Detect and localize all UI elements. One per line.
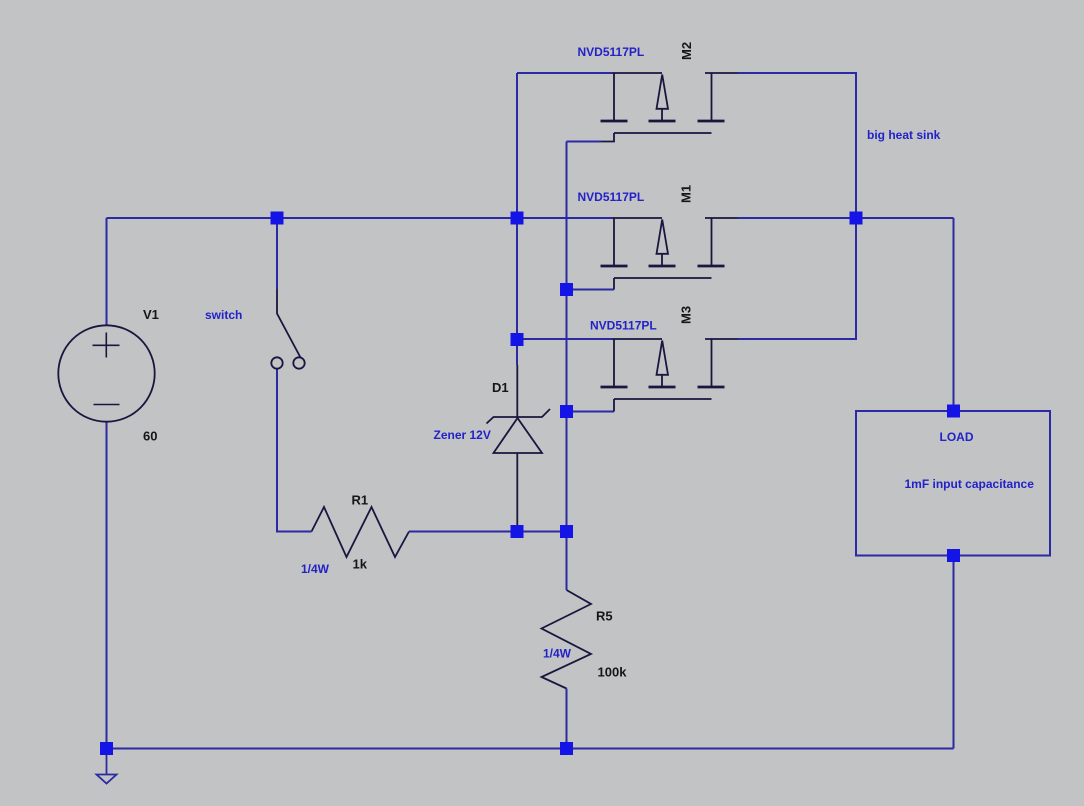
wire switch top lead xyxy=(276,218,278,289)
junction node M3 drain xyxy=(511,333,524,346)
wire zener bottom lead xyxy=(516,453,518,532)
transistor M3 xyxy=(601,339,739,412)
wire vertical x=517 from M2 drain to zener xyxy=(516,73,518,365)
svg-text:switch: switch xyxy=(205,308,242,322)
wire right drop to LOAD xyxy=(953,218,955,411)
junction node ground rail xyxy=(100,742,113,755)
svg-text:LOAD: LOAD xyxy=(940,430,974,444)
junction node R5 bottom xyxy=(560,742,573,755)
wire LOAD bottom to rail xyxy=(953,556,955,749)
wire V1 top lead xyxy=(106,218,108,325)
junction node rail-heat sink xyxy=(850,212,863,225)
voltage source V1 xyxy=(58,325,154,421)
svg-text:M1: M1 xyxy=(679,185,694,203)
junction node M1 gate xyxy=(560,283,573,296)
svg-text:Zener 12V: Zener 12V xyxy=(434,428,491,442)
wire M1 gate lead blue part xyxy=(567,289,615,291)
wire top rail y=218 left portion xyxy=(107,217,613,219)
svg-text:NVD5117PL: NVD5117PL xyxy=(590,319,657,333)
wire R1 right lead to node xyxy=(409,531,567,533)
wire zener top lead dark xyxy=(516,365,518,417)
svg-text:big heat sink: big heat sink xyxy=(867,128,941,142)
wire bottom rail y=748.5 xyxy=(107,748,954,750)
wire M3 drain horizontal xyxy=(517,338,612,340)
wire M2 source to heat sink rail xyxy=(738,73,856,218)
resistor R5 xyxy=(542,590,592,689)
svg-text:1/4W: 1/4W xyxy=(543,647,572,661)
svg-text:1k: 1k xyxy=(353,557,368,572)
junction node rail-switch xyxy=(271,212,284,225)
wire R5 bottom lead xyxy=(566,689,568,749)
svg-text:60: 60 xyxy=(143,429,157,444)
junction node zener bottom xyxy=(511,525,524,538)
svg-text:D1: D1 xyxy=(492,380,509,395)
svg-text:V1: V1 xyxy=(143,307,159,322)
svg-text:R5: R5 xyxy=(596,609,613,624)
wire V1 bottom lead xyxy=(106,422,108,749)
svg-text:R1: R1 xyxy=(352,493,369,508)
wire M2 gate lead blue part xyxy=(567,141,602,143)
wire vertical x=566.5 gates bus xyxy=(566,142,568,591)
junction node M3 gate xyxy=(560,405,573,418)
transistor M2 xyxy=(601,73,739,142)
junction node LOAD top xyxy=(947,405,960,418)
wire switch bottom lead to R1 xyxy=(277,369,312,532)
ground xyxy=(97,749,117,784)
svg-text:M3: M3 xyxy=(679,306,694,324)
svg-text:100k: 100k xyxy=(598,665,628,680)
svg-text:NVD5117PL: NVD5117PL xyxy=(578,190,645,204)
junction node rail-M2 drain xyxy=(511,212,524,225)
wire top rail y=218 right portion xyxy=(738,217,954,219)
svg-text:M2: M2 xyxy=(679,42,694,60)
svg-text:1/4W: 1/4W xyxy=(301,562,330,576)
resistor R1 xyxy=(312,507,410,557)
svg-text:NVD5117PL: NVD5117PL xyxy=(578,45,645,59)
transistor M1 xyxy=(601,218,739,290)
wire M2 drain horizontal xyxy=(517,72,612,74)
svg-text:1mF input capacitance: 1mF input capacitance xyxy=(905,477,1035,491)
switch S1 xyxy=(271,289,304,369)
wire M3 gate lead blue part xyxy=(567,411,615,413)
LOAD box xyxy=(856,411,1050,556)
junction node R1-R5 xyxy=(560,525,573,538)
junction node LOAD bottom xyxy=(947,549,960,562)
zener diode D1 xyxy=(487,409,551,453)
wire node 856,218 down to M3 source xyxy=(738,218,856,339)
